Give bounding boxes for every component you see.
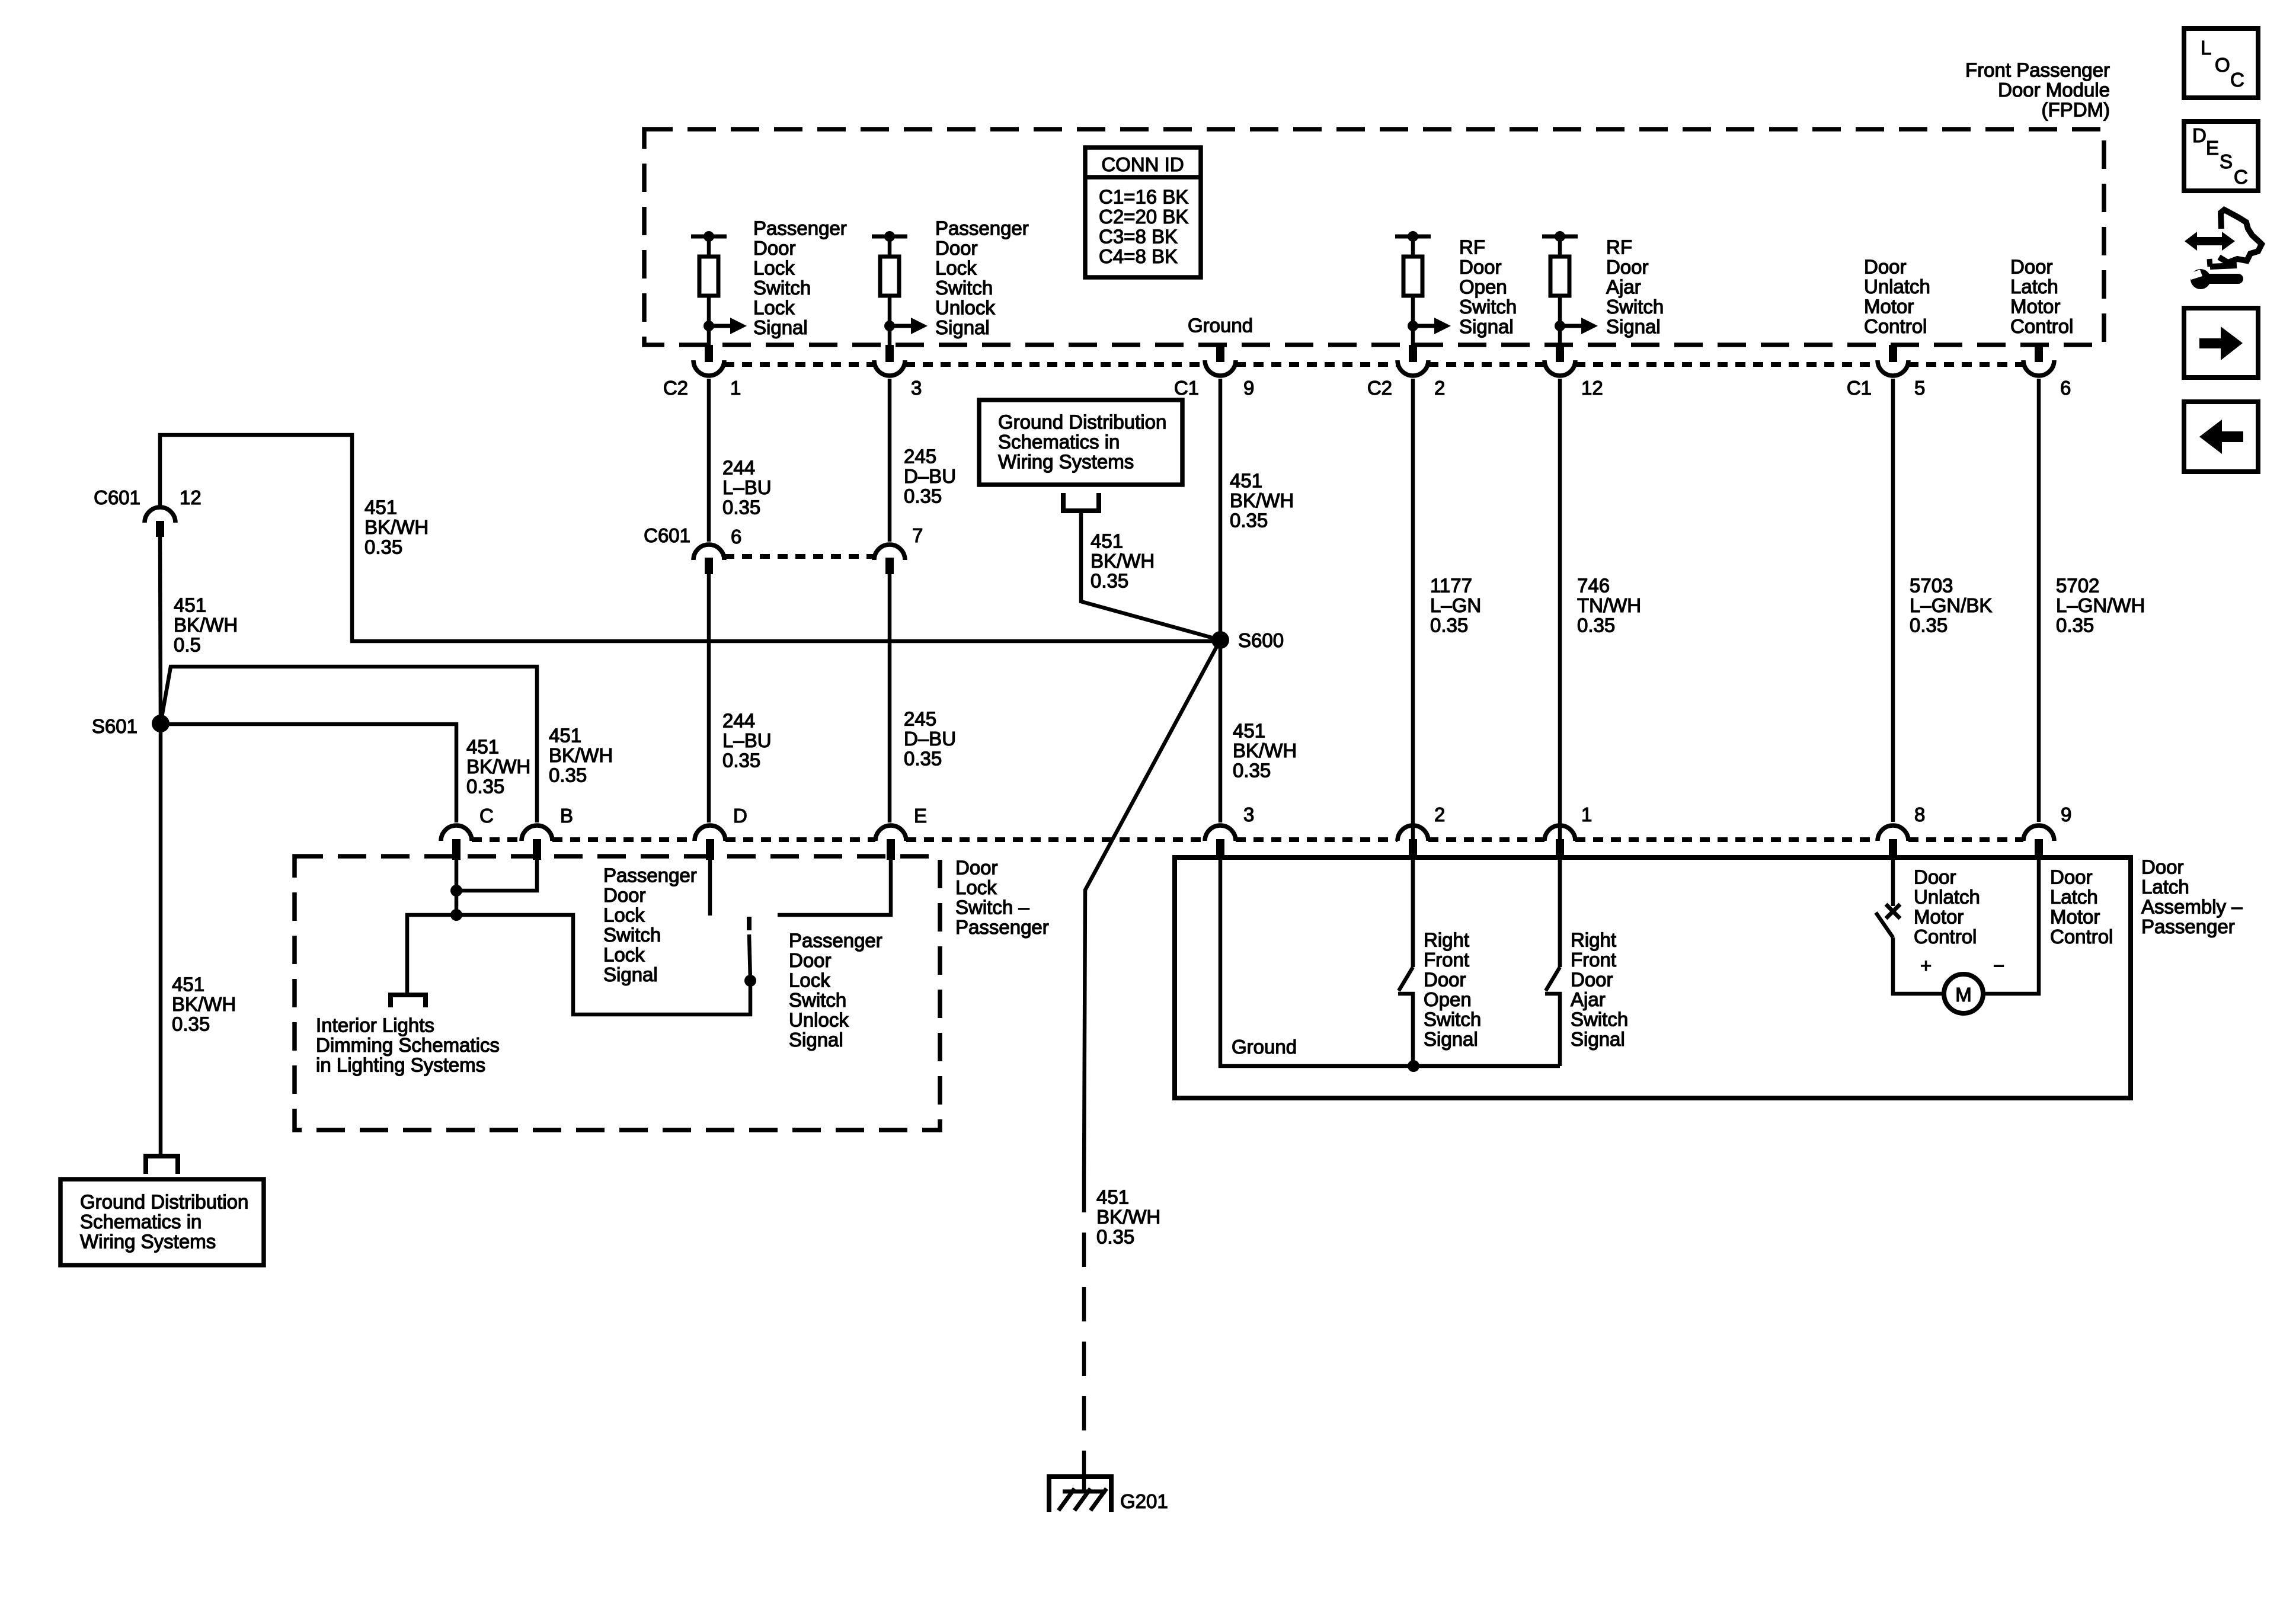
off-page connector fork to interior lights dimming bbox=[391, 995, 426, 1007]
svg-text:Ground: Ground bbox=[1188, 315, 1253, 337]
svg-text:0.35: 0.35 bbox=[364, 536, 402, 558]
svg-text:Passenger: Passenger bbox=[789, 930, 882, 952]
svg-text:G201: G201 bbox=[1120, 1490, 1168, 1512]
svg-text:Schematics in: Schematics in bbox=[80, 1211, 202, 1233]
svg-text:Door Module: Door Module bbox=[1998, 79, 2110, 101]
svg-text:Door: Door bbox=[935, 237, 978, 259]
svg-text:Lock: Lock bbox=[753, 297, 795, 319]
svg-text:Signal: Signal bbox=[603, 964, 658, 985]
svg-text:C1=16 BK: C1=16 BK bbox=[1099, 186, 1188, 208]
svg-text:C601: C601 bbox=[94, 486, 140, 508]
connector pin stub at x=2384 on FPDM bbox=[1409, 345, 1417, 362]
svg-text:451: 451 bbox=[172, 974, 204, 996]
lock switch fixed contact stub bbox=[747, 917, 752, 930]
svg-text:0.35: 0.35 bbox=[722, 497, 760, 518]
icon box next page (right arrow) bbox=[2184, 308, 2258, 377]
connector pin 8 arc of door latch assembly bbox=[1878, 825, 1908, 841]
icon box LOC bbox=[2184, 28, 2258, 98]
dotted cavity line door lock switch pins bbox=[472, 837, 522, 842]
svg-text:0.35: 0.35 bbox=[904, 748, 942, 770]
wire 746 TN/WH from pin12 down bbox=[1558, 379, 1562, 967]
svg-text:Motor: Motor bbox=[2050, 906, 2100, 928]
svg-text:Open: Open bbox=[1459, 276, 1507, 298]
svg-text:Switch: Switch bbox=[1606, 296, 1664, 318]
connector pin arc at x=2384 row1 bbox=[1398, 360, 1428, 376]
svg-text:3: 3 bbox=[1243, 804, 1254, 825]
svg-text:Switch: Switch bbox=[603, 924, 661, 946]
svg-text:C4=8 BK: C4=8 BK bbox=[1099, 245, 1178, 267]
svg-text:0.35: 0.35 bbox=[904, 485, 942, 507]
svg-text:D–BU: D–BU bbox=[904, 465, 956, 487]
wire pin B down and left to junction bbox=[456, 860, 537, 891]
svg-text:Passenger: Passenger bbox=[603, 865, 697, 886]
wire 1177 L-GN from pin2 down bbox=[1411, 379, 1415, 967]
svg-text:9: 9 bbox=[2061, 804, 2071, 825]
connector pin arc at x=2632 row1 bbox=[1544, 360, 1575, 376]
svg-text:746: 746 bbox=[1577, 575, 1610, 597]
svg-text:BK/WH: BK/WH bbox=[174, 614, 238, 636]
wire 451 BK/WH from S600 to latch assembly pin 3 bbox=[1219, 640, 1223, 822]
svg-text:BK/WH: BK/WH bbox=[466, 756, 530, 777]
svg-text:Door: Door bbox=[2050, 866, 2093, 888]
door ajar switch fixed contact bbox=[1545, 994, 1560, 1066]
svg-text:0.35: 0.35 bbox=[722, 750, 760, 772]
connector pin 9 arc of door latch assembly bbox=[2023, 825, 2054, 841]
svg-text:S: S bbox=[2220, 151, 2233, 172]
svg-text:Latch: Latch bbox=[2050, 886, 2098, 908]
svg-text:Lock: Lock bbox=[603, 904, 645, 926]
svg-text:S600: S600 bbox=[1238, 629, 1284, 651]
svg-text:C: C bbox=[479, 805, 494, 827]
svg-text:Signal: Signal bbox=[1606, 316, 1661, 338]
component box Door Lock Switch - Passenger (dashed) bbox=[295, 856, 940, 1130]
svg-text:Passenger: Passenger bbox=[955, 916, 1049, 938]
switch S4 RF door ajar switch signal input bbox=[1542, 235, 1578, 239]
wire motor to pin 9 bbox=[1983, 860, 2039, 994]
svg-text:Passenger: Passenger bbox=[753, 217, 847, 239]
connector pin arc at x=3440 row1 bbox=[2023, 360, 2054, 376]
svg-text:D: D bbox=[733, 805, 747, 827]
svg-text:12: 12 bbox=[1581, 377, 1603, 399]
door open switch blade (open) bbox=[1399, 967, 1413, 991]
wire 244 L-BU from C601-6 to pin D bbox=[707, 574, 711, 822]
svg-text:BK/WH: BK/WH bbox=[172, 993, 236, 1015]
svg-text:Lock: Lock bbox=[603, 944, 645, 966]
svg-text:Latch: Latch bbox=[2010, 276, 2058, 297]
svg-text:Front: Front bbox=[1424, 949, 1469, 971]
svg-text:Door: Door bbox=[789, 949, 832, 971]
connector pin 1 arc of door latch assembly bbox=[1544, 825, 1575, 841]
svg-text:Control: Control bbox=[1864, 315, 1927, 337]
svg-text:Lock: Lock bbox=[789, 969, 830, 991]
door open switch wire from pin 2 bbox=[1411, 860, 1415, 967]
svg-text:Switch: Switch bbox=[1571, 1009, 1628, 1030]
svg-text:245: 245 bbox=[904, 708, 936, 730]
svg-text:6: 6 bbox=[2060, 377, 2071, 399]
wire 451 BK/WH from S600 to G201 (diagonal+vertical) bbox=[1084, 640, 1220, 1178]
ground G201 symbol bbox=[1082, 1459, 1086, 1491]
svg-text:Door: Door bbox=[955, 857, 998, 879]
svg-text:L–GN/BK: L–GN/BK bbox=[1910, 594, 1992, 616]
wire 245 D-BU from C601-7 to pin E bbox=[888, 574, 892, 822]
svg-text:C2: C2 bbox=[663, 377, 688, 399]
svg-text:BK/WH: BK/WH bbox=[1233, 740, 1297, 761]
svg-text:Door: Door bbox=[2010, 256, 2053, 278]
svg-text:451: 451 bbox=[466, 736, 499, 758]
svg-text:BK/WH: BK/WH bbox=[1091, 550, 1155, 572]
wire unlatch blade to motor bbox=[1893, 937, 1944, 994]
svg-text:Door: Door bbox=[1424, 969, 1466, 991]
svg-text:BK/WH: BK/WH bbox=[1230, 489, 1294, 511]
connector pin arc at x=1196 row1 bbox=[693, 360, 724, 376]
svg-text:1: 1 bbox=[1581, 804, 1592, 825]
connector C2/C1 dotted cavity line row1 bbox=[724, 362, 874, 367]
junction dot ground bus at door open switch bbox=[1408, 1060, 1419, 1072]
splice S600 bbox=[1211, 631, 1229, 649]
svg-text:E: E bbox=[914, 805, 927, 827]
wire pin D to switch pole (lock signal) bbox=[708, 860, 712, 916]
wire to interior lights fork bbox=[407, 915, 456, 995]
svg-text:0.35: 0.35 bbox=[1577, 614, 1615, 636]
svg-text:7: 7 bbox=[912, 524, 923, 546]
svg-text:B: B bbox=[560, 805, 573, 827]
motor M (door latch motor) bbox=[1944, 974, 1983, 1013]
svg-text:M: M bbox=[1955, 984, 1972, 1006]
wire 451 BK/WH from ground distribution fork to S600 bbox=[1081, 511, 1220, 640]
svg-text:Lock: Lock bbox=[753, 257, 795, 279]
svg-text:Unlatch: Unlatch bbox=[1864, 276, 1930, 297]
splice S601 bbox=[152, 715, 170, 732]
wire internal ground bus bbox=[1220, 860, 1560, 1066]
svg-text:0.35: 0.35 bbox=[1910, 614, 1948, 636]
connector pin arc at x=3194 row1 bbox=[1878, 360, 1908, 376]
svg-text:Unlock: Unlock bbox=[789, 1009, 849, 1031]
connector C601 dotted cavity line bbox=[724, 554, 874, 559]
wire from S601 to pin C (lower branch) bbox=[161, 724, 456, 822]
svg-text:in Lighting Systems: in Lighting Systems bbox=[316, 1054, 485, 1076]
wire junction to second junction bbox=[455, 891, 459, 915]
lock switch pole junction dot bbox=[744, 975, 756, 987]
second junction dot bbox=[450, 909, 462, 921]
connector pin D arc of door lock switch bbox=[695, 825, 725, 841]
svg-text:Assembly –: Assembly – bbox=[2141, 896, 2243, 918]
off-page connector fork below middle ground distribution box bbox=[1063, 493, 1099, 511]
switch S3 RF door open switch signal input bbox=[1395, 235, 1431, 239]
svg-text:Ground: Ground bbox=[1232, 1036, 1297, 1058]
svg-text:Unlatch: Unlatch bbox=[1914, 886, 1980, 908]
svg-text:C1: C1 bbox=[1847, 377, 1872, 399]
svg-text:L–BU: L–BU bbox=[722, 729, 772, 751]
svg-text:Signal: Signal bbox=[1571, 1028, 1625, 1050]
svg-text:Signal: Signal bbox=[935, 316, 990, 338]
svg-text:S601: S601 bbox=[92, 715, 137, 737]
svg-text:5702: 5702 bbox=[2056, 575, 2099, 597]
svg-text:BK/WH: BK/WH bbox=[549, 744, 613, 766]
connector C601 pin 7 arc bbox=[874, 545, 905, 560]
connector pin stub at x=1501 on FPDM bbox=[885, 345, 894, 362]
reference box Ground Distribution Schematics in Wiring Systems (left) bbox=[60, 1179, 264, 1265]
connector pin E arc of door lock switch bbox=[875, 825, 906, 841]
wire 5703 L-GN/BK from pin5 down bbox=[1891, 379, 1895, 822]
svg-text:RF: RF bbox=[1606, 236, 1632, 258]
svg-text:Door: Door bbox=[1571, 969, 1613, 991]
svg-text:Motor: Motor bbox=[2010, 296, 2060, 318]
svg-text:451: 451 bbox=[1096, 1186, 1129, 1208]
svg-text:9: 9 bbox=[1243, 377, 1254, 399]
svg-text:(FPDM): (FPDM) bbox=[2042, 99, 2110, 121]
svg-text:Door: Door bbox=[603, 884, 646, 906]
svg-text:RF: RF bbox=[1459, 236, 1485, 258]
connector pin stub at x=2059 on FPDM bbox=[1216, 345, 1224, 362]
wire pin C to junction bbox=[455, 860, 459, 891]
lock switch blade (open) bbox=[749, 934, 750, 980]
svg-text:Unlock: Unlock bbox=[935, 297, 995, 319]
svg-text:Switch: Switch bbox=[935, 277, 993, 299]
svg-text:3: 3 bbox=[911, 377, 922, 399]
svg-text:451: 451 bbox=[364, 497, 397, 518]
wire 451 BK/WH from S601 down to ground distribution bbox=[159, 724, 163, 1156]
svg-text:O: O bbox=[2215, 54, 2230, 76]
svg-text:451: 451 bbox=[1233, 720, 1265, 742]
svg-text:1: 1 bbox=[730, 377, 741, 399]
svg-text:−: − bbox=[1993, 955, 2004, 977]
svg-text:6: 6 bbox=[731, 526, 741, 548]
svg-text:Control: Control bbox=[1914, 926, 1977, 948]
wire 451 ground from pin9 to S600 bbox=[1219, 379, 1223, 640]
door open switch fixed contact bbox=[1398, 994, 1413, 1066]
connector pin stub at x=2632 on FPDM bbox=[1556, 345, 1564, 362]
svg-text:Ajar: Ajar bbox=[1571, 988, 1606, 1010]
svg-text:0.35: 0.35 bbox=[1091, 570, 1128, 592]
wire 451 BK/WH dashed section to G201 bbox=[1082, 1178, 1086, 1459]
svg-text:Door: Door bbox=[1459, 256, 1502, 278]
svg-text:CONN ID: CONN ID bbox=[1101, 153, 1184, 175]
svg-text:Front: Front bbox=[1571, 949, 1616, 971]
svg-text:Lock: Lock bbox=[955, 876, 997, 898]
svg-text:Switch: Switch bbox=[789, 989, 846, 1011]
svg-text:Dimming Schematics: Dimming Schematics bbox=[316, 1034, 500, 1056]
svg-text:Door: Door bbox=[1606, 256, 1649, 278]
svg-text:0.35: 0.35 bbox=[1430, 614, 1468, 636]
module box FPDM (Front Passenger Door Module) dashed outline bbox=[644, 129, 2104, 345]
svg-text:L–BU: L–BU bbox=[722, 476, 772, 498]
wire 451 BK/WH from C601-12 up and over to S600 bbox=[160, 435, 1220, 641]
svg-text:0.35: 0.35 bbox=[2056, 614, 2094, 636]
icon box DESC bbox=[2184, 121, 2258, 191]
svg-text:0.35: 0.35 bbox=[549, 764, 587, 786]
svg-text:Lock: Lock bbox=[935, 257, 977, 279]
svg-text:C2: C2 bbox=[1367, 377, 1392, 399]
svg-text:5: 5 bbox=[1914, 377, 1925, 399]
svg-text:TN/WH: TN/WH bbox=[1577, 594, 1641, 616]
connector pin stub at x=3194 on FPDM bbox=[1889, 345, 1897, 362]
svg-text:C1: C1 bbox=[1174, 377, 1199, 399]
svg-text:0.5: 0.5 bbox=[174, 634, 201, 656]
connector pin 3 arc of door latch assembly bbox=[1205, 825, 1236, 841]
svg-text:Wiring Systems: Wiring Systems bbox=[998, 451, 1134, 473]
connector pin arc at x=2059 row1 bbox=[1205, 360, 1236, 376]
svg-text:Right: Right bbox=[1571, 929, 1616, 951]
door ajar switch blade (open) bbox=[1546, 967, 1560, 991]
svg-text:Door: Door bbox=[2141, 856, 2184, 878]
svg-text:C3=8 BK: C3=8 BK bbox=[1099, 226, 1178, 248]
svg-text:BK/WH: BK/WH bbox=[364, 516, 428, 538]
svg-text:244: 244 bbox=[722, 710, 755, 732]
svg-text:Motor: Motor bbox=[1914, 906, 1964, 928]
connector C601 pin 6 arc bbox=[693, 545, 724, 560]
svg-text:Switch –: Switch – bbox=[955, 897, 1029, 918]
off-page connector fork to ground distribution (left) bbox=[146, 1156, 178, 1174]
svg-text:Door: Door bbox=[1864, 256, 1907, 278]
svg-text:C: C bbox=[2234, 166, 2248, 188]
switch S2 passenger door lock switch unlock signal contact bbox=[872, 235, 907, 239]
svg-text:C: C bbox=[2230, 69, 2244, 91]
svg-text:Motor: Motor bbox=[1864, 296, 1914, 318]
wire 451 BK/WH 0.5 from C601-12 to S601 bbox=[160, 537, 161, 724]
svg-text:0.35: 0.35 bbox=[1233, 760, 1271, 782]
svg-text:245: 245 bbox=[904, 446, 936, 468]
switch S1 passenger door lock switch lock signal contact bbox=[691, 235, 727, 239]
connector pin stub at x=3440 on FPDM bbox=[2035, 345, 2043, 362]
connector pin arc at x=1501 row1 bbox=[874, 360, 905, 376]
svg-text:2: 2 bbox=[1434, 377, 1445, 399]
svg-text:C2=20 BK: C2=20 BK bbox=[1099, 206, 1188, 228]
svg-text:0.35: 0.35 bbox=[466, 776, 504, 798]
svg-text:L–GN/WH: L–GN/WH bbox=[2056, 594, 2145, 616]
svg-text:Control: Control bbox=[2050, 926, 2113, 948]
svg-text:+: + bbox=[1920, 955, 1932, 977]
svg-text:451: 451 bbox=[549, 725, 581, 747]
unlatch switch contact X mark bbox=[1886, 904, 1900, 918]
wire lock-switch common path bbox=[456, 915, 750, 1014]
svg-text:D–BU: D–BU bbox=[904, 728, 956, 750]
svg-text:Control: Control bbox=[2010, 315, 2073, 337]
svg-text:12: 12 bbox=[180, 486, 202, 508]
svg-text:0.35: 0.35 bbox=[1096, 1226, 1134, 1248]
svg-text:451: 451 bbox=[1230, 470, 1262, 492]
svg-text:L: L bbox=[2201, 37, 2211, 59]
svg-text:244: 244 bbox=[722, 457, 755, 479]
door ajar switch wire from pin 1 bbox=[1558, 860, 1562, 967]
svg-text:1177: 1177 bbox=[1430, 575, 1472, 597]
svg-text:Switch: Switch bbox=[1424, 1009, 1481, 1030]
connector pin stub at x=1196 on FPDM bbox=[705, 345, 713, 362]
unlatch switch blade bbox=[1876, 913, 1893, 937]
svg-text:0.35: 0.35 bbox=[172, 1013, 210, 1035]
wire 245 D-BU from pin3 to C601-7 bbox=[888, 379, 892, 542]
svg-text:Right: Right bbox=[1424, 929, 1469, 951]
svg-text:Signal: Signal bbox=[1459, 316, 1514, 338]
svg-text:Passenger: Passenger bbox=[935, 217, 1029, 239]
svg-text:E: E bbox=[2206, 137, 2219, 159]
svg-text:8: 8 bbox=[1914, 804, 1925, 825]
svg-text:Wiring Systems: Wiring Systems bbox=[80, 1231, 216, 1253]
connector ID table CONN ID bbox=[1085, 148, 1201, 277]
reference box Ground Distribution Schematics in Wiring Systems (middle) bbox=[979, 400, 1182, 485]
svg-text:2: 2 bbox=[1434, 804, 1445, 825]
connector pin B arc of door lock switch bbox=[522, 825, 552, 841]
icon car door with double arrow and wrench bbox=[2185, 232, 2235, 251]
wire 5702 L-GN/WH from pin6 down bbox=[2037, 379, 2041, 822]
svg-text:C601: C601 bbox=[644, 524, 690, 546]
svg-text:D: D bbox=[2192, 124, 2207, 146]
component box Door Latch Assembly - Passenger bbox=[1175, 857, 2131, 1098]
connector pin 2 arc of door latch assembly bbox=[1398, 825, 1428, 841]
svg-text:Passenger: Passenger bbox=[2141, 916, 2235, 937]
svg-text:0.35: 0.35 bbox=[1230, 510, 1268, 532]
wire from S601 to pin B (upper branch) bbox=[161, 667, 537, 822]
svg-text:Ground Distribution: Ground Distribution bbox=[80, 1191, 248, 1213]
icon box previous page (left arrow) bbox=[2184, 402, 2258, 472]
svg-text:Door: Door bbox=[1914, 866, 1956, 888]
svg-text:Door: Door bbox=[753, 237, 796, 259]
svg-text:Signal: Signal bbox=[753, 316, 808, 338]
svg-text:5703: 5703 bbox=[1910, 575, 1953, 597]
connector C601 pin 12 arc bbox=[145, 507, 175, 523]
svg-text:Switch: Switch bbox=[753, 277, 811, 299]
wire pin 8 to unlatch contact bbox=[1891, 860, 1895, 906]
svg-text:Latch: Latch bbox=[2141, 876, 2189, 898]
svg-text:Switch: Switch bbox=[1459, 296, 1517, 318]
svg-text:Schematics in: Schematics in bbox=[998, 431, 1120, 453]
connector pin C arc of door lock switch bbox=[441, 825, 472, 841]
wire pin E unlock signal to fixed contact bbox=[778, 860, 891, 915]
svg-text:Open: Open bbox=[1424, 988, 1472, 1010]
svg-text:Ground Distribution: Ground Distribution bbox=[998, 411, 1166, 433]
svg-text:Ajar: Ajar bbox=[1606, 276, 1641, 298]
svg-text:BK/WH: BK/WH bbox=[1096, 1206, 1160, 1228]
wire 244 L-BU from pin1 to C601-6 bbox=[707, 379, 711, 542]
svg-text:Signal: Signal bbox=[789, 1029, 843, 1051]
svg-text:Interior Lights: Interior Lights bbox=[316, 1014, 434, 1036]
junction dot C/B bbox=[450, 885, 462, 897]
svg-text:Front Passenger: Front Passenger bbox=[1965, 59, 2110, 81]
svg-text:451: 451 bbox=[1091, 530, 1123, 552]
svg-text:L–GN: L–GN bbox=[1430, 594, 1481, 616]
svg-text:Signal: Signal bbox=[1424, 1028, 1478, 1050]
svg-text:451: 451 bbox=[174, 594, 206, 616]
